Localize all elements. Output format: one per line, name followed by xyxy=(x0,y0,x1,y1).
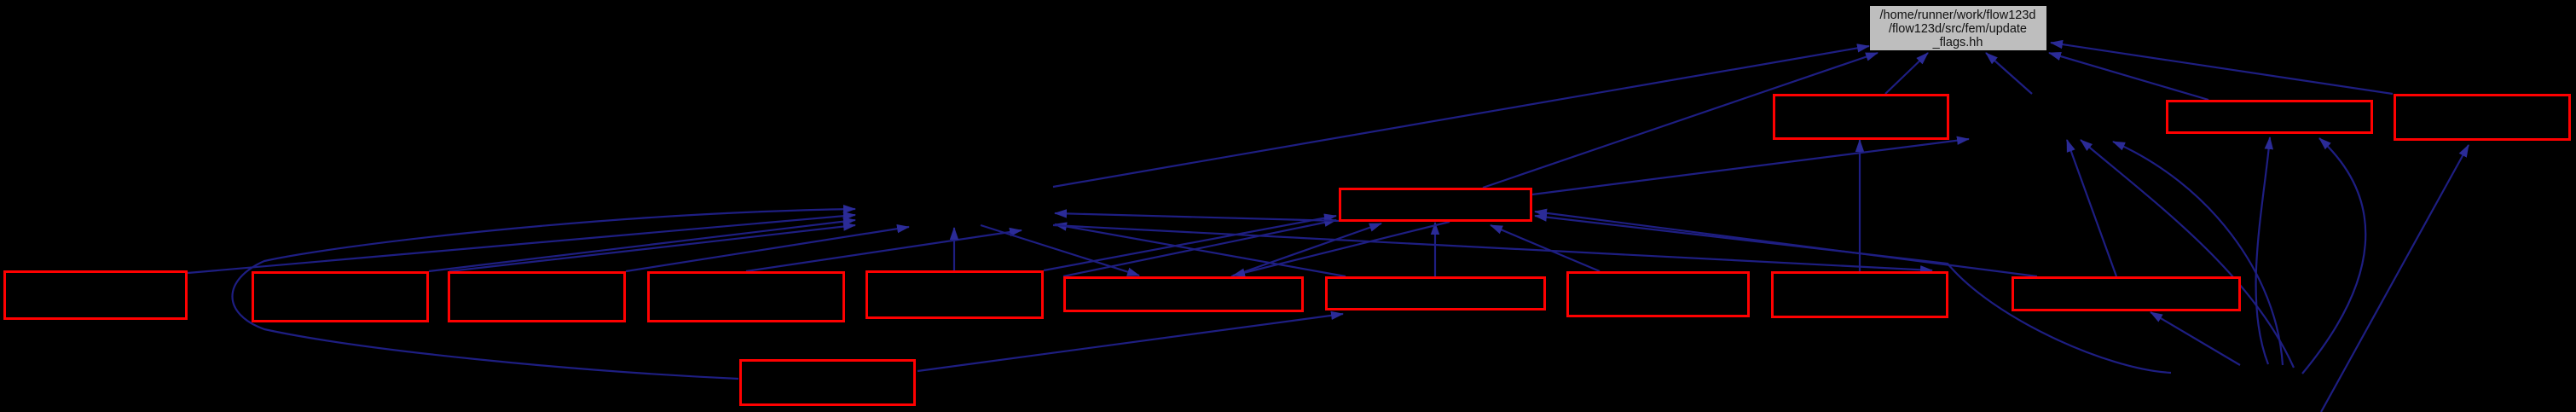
svg-text:/flow123d/src/fem/update: /flow123d/src/fem/update xyxy=(1889,22,2027,36)
wire edge A7 to C vertical xyxy=(1434,223,1436,276)
wire curved edge bottom hidden node to hidden node row2 b xyxy=(2113,142,2283,365)
wire curved edge bottom hidden node to C xyxy=(1535,216,2171,373)
wire edge hidden node to root xyxy=(1986,53,2032,94)
wire edge A7 to F xyxy=(1055,224,1346,276)
node A10 xyxy=(2013,278,2240,310)
node B2 xyxy=(2168,102,2372,133)
node A5 xyxy=(867,272,1043,318)
wire edge A2 to F xyxy=(429,220,855,271)
wire edge B1 to root xyxy=(1885,53,1928,94)
node B3 xyxy=(2395,96,2570,140)
wire loop edge D to F xyxy=(233,209,856,379)
wire edge F to A6 xyxy=(981,225,1139,276)
wire curved edge bottom hidden node to hidden node row2 xyxy=(2081,140,2294,368)
node A4 xyxy=(649,273,844,322)
wire edge A6 to C bottom xyxy=(1231,223,1381,276)
wire edge A1 to F xyxy=(188,215,855,273)
node A1 xyxy=(5,272,187,319)
node D bottom box xyxy=(741,361,915,405)
wire edge C to hidden node row2 xyxy=(1532,139,1969,194)
node A7 xyxy=(1327,278,1545,310)
node A8 xyxy=(1568,273,1749,316)
wire edge A10 to hidden node row2 xyxy=(2067,140,2116,276)
svg-text:/home/runner/work/flow123d: /home/runner/work/flow123d xyxy=(1880,9,2036,22)
wire edge A5 to C xyxy=(1044,216,1336,270)
wire edge F to root xyxy=(1053,46,1869,187)
wire edge F to A9 xyxy=(1053,225,1932,270)
wire edge A4 to F bottom xyxy=(746,230,1022,271)
node A2 xyxy=(253,273,428,322)
wire curved edge right to B2 xyxy=(2302,138,2365,374)
wire edge bottom hidden node to A10 xyxy=(2151,312,2240,365)
wire edge bottom hidden node to B2 xyxy=(2256,137,2270,364)
wire edge A3 to F xyxy=(449,225,855,271)
wire edge A5 to F vertical xyxy=(953,228,955,270)
node A9 xyxy=(1773,273,1948,317)
wire edge A8 to C xyxy=(1491,225,1600,271)
wire edge A10 to C xyxy=(1535,212,2037,276)
svg-text:_flags.hh: _flags.hh xyxy=(1932,36,1983,49)
node B1 xyxy=(1774,96,1948,139)
wire edge B3 to root xyxy=(2051,43,2393,94)
wire edge offimage to B3 xyxy=(2321,145,2469,412)
wire edge A3b to F bottom xyxy=(626,227,909,271)
wire edge D to A7 xyxy=(918,314,1343,371)
node C center fe_values xyxy=(1340,189,1531,221)
wire edge C to F xyxy=(1055,213,1339,221)
node root update_flags.hh xyxy=(1870,6,2046,50)
node A3 xyxy=(449,273,625,322)
node A6 xyxy=(1065,278,1303,311)
wire edge A6 to C left xyxy=(1063,220,1336,276)
wire edge B2 to root xyxy=(2049,53,2208,100)
wire edge C to root xyxy=(1483,53,1878,188)
wire edge C to A6 xyxy=(1233,222,1450,276)
wire edge A9 to B1 xyxy=(1859,140,1861,271)
